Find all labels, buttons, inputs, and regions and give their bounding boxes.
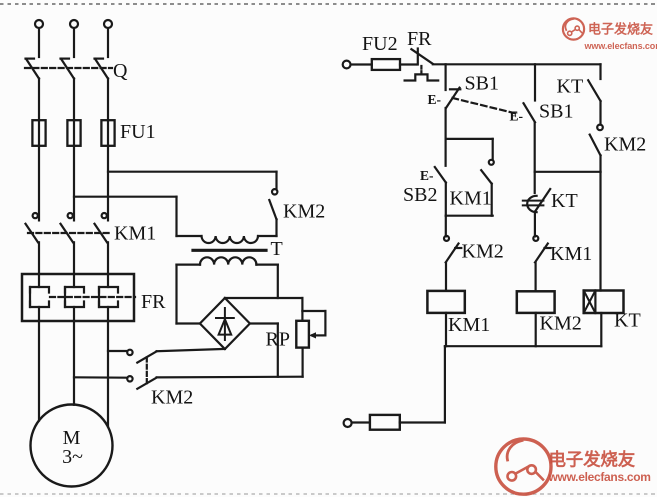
wire pole3 to brake contact a [108, 350, 127, 352]
wire control top bus [433, 63, 601, 65]
wire KM2 interlock to KM1 coil [445, 262, 447, 291]
control terminal bottom [344, 419, 352, 427]
svg-text:3~: 3~ [62, 446, 83, 468]
watermark top right [563, 18, 657, 50]
wire bus to SB1 start [534, 64, 536, 100]
svg-text:FR: FR [407, 28, 432, 50]
wire node B to KT contact [534, 172, 536, 193]
transformer T [193, 236, 277, 265]
coil KM1 [427, 291, 464, 313]
wire brake contact b to RP [157, 376, 303, 379]
svg-text:www.elecfans.com: www.elecfans.com [548, 470, 651, 484]
rectifier diode [216, 308, 234, 340]
wire pole2 to brake contact b [74, 376, 127, 379]
svg-text:KM1: KM1 [448, 314, 490, 336]
svg-text:T: T [271, 238, 283, 260]
RP wiper [302, 311, 325, 339]
KM1 linkage (dashed) [28, 232, 110, 234]
label KM2 brake [151, 387, 193, 409]
label KT right [557, 76, 584, 98]
svg-text:KM2: KM2 [604, 134, 646, 156]
wire RP bottom [302, 348, 304, 377]
svg-text:KM2: KM2 [462, 241, 504, 263]
time relay KT contact (NO) [588, 80, 600, 101]
label M 3~ [62, 427, 83, 468]
label FU2 [362, 33, 398, 55]
label RP [266, 329, 290, 351]
label KM1 aux [450, 188, 492, 210]
svg-text:KT: KT [557, 76, 584, 98]
svg-text:E-: E- [420, 168, 434, 183]
SB1 linkage (dashed) [453, 98, 517, 114]
wire node A top [446, 138, 493, 140]
wire KT contact to KM1 interlock [534, 212, 536, 237]
contactor KM1 interlock contact (NC) [533, 236, 550, 263]
wire secondary left to rectifier [177, 265, 201, 324]
svg-text:KT: KT [614, 310, 641, 332]
wire SB1 to node A [445, 108, 447, 139]
wire FU1 to KM1 [39, 146, 108, 221]
label FR control [407, 28, 432, 50]
label FR [141, 291, 166, 313]
SB1 start actuator E [510, 109, 524, 124]
label KT coil [614, 310, 641, 332]
KM2 brake linkage (dashed) [146, 358, 148, 385]
label Q [113, 60, 128, 82]
wire terminal leads [39, 28, 108, 57]
switch Q poles [26, 59, 109, 79]
svg-text:FU1: FU1 [120, 121, 156, 143]
motor M [31, 405, 113, 487]
label KM1 coil [448, 314, 490, 336]
fuse control bottom [352, 415, 400, 430]
SB2 actuator E [420, 168, 434, 183]
svg-text:FU2: FU2 [362, 33, 398, 55]
coil KM2 [517, 291, 555, 313]
svg-text:KT: KT [551, 190, 578, 212]
KM2 brake contact b [127, 376, 156, 389]
pushbutton SB2 (start, NO) [435, 139, 446, 183]
svg-text:KM1: KM1 [450, 188, 492, 210]
label KM2 aux [604, 134, 646, 156]
svg-text:www.elecfans.com: www.elecfans.com [584, 41, 657, 51]
FR heater linkage (dashed) [50, 296, 135, 298]
svg-text:Q: Q [113, 60, 128, 82]
label KM1 interlock [550, 243, 592, 265]
svg-text:FR: FR [141, 291, 166, 313]
wire bus to SB1 stop [445, 64, 447, 90]
wire SB2 lower [445, 183, 447, 216]
contactor KM2 aux contact (NO) [590, 125, 603, 156]
wire terminal to FU2 [351, 63, 372, 65]
svg-text:SB1: SB1 [465, 73, 499, 95]
label KM2 (transformer feed) [283, 201, 325, 223]
wire node B to KT coil [599, 172, 601, 291]
label SB2 [403, 184, 437, 206]
KM2 brake contact a [127, 350, 156, 363]
bridge rectifier [200, 298, 250, 349]
contactor KM1 aux contact (NO) [481, 139, 494, 216]
FR control contact [411, 49, 432, 65]
svg-text:E-: E- [428, 92, 442, 107]
svg-text:KM2: KM2 [283, 201, 325, 223]
label KT delay [551, 190, 578, 212]
svg-text:KM1: KM1 [550, 243, 592, 265]
wire node B [535, 171, 601, 173]
switch Q linkage (dashed) [25, 67, 112, 69]
label SB1 stop [465, 73, 499, 95]
svg-text:电子发烧友: 电子发烧友 [588, 22, 653, 37]
svg-text:SB1: SB1 [539, 101, 573, 123]
svg-text:KM2: KM2 [540, 313, 582, 335]
fuse FU1 [32, 120, 114, 146]
fuse FU2 [372, 59, 416, 70]
contactor KM2 interlock contact (NC) [444, 236, 461, 263]
SB1 stop actuator E [428, 92, 442, 107]
wire KT coil to bus [600, 313, 602, 346]
FR actuator (dashed) [420, 66, 422, 76]
contactor KM2 contact (transformer feed) [269, 189, 277, 236]
svg-text:SB2: SB2 [403, 184, 437, 206]
rheostat RP [296, 321, 309, 348]
wire brake contact a to rectifier [157, 349, 225, 351]
svg-text:RP: RP [266, 329, 290, 351]
wire KM1 interlock to KM2 coil [534, 262, 536, 291]
label KM2 coil [540, 313, 582, 335]
wire SB1 start to node B [534, 123, 536, 172]
label FU1 [120, 121, 156, 143]
svg-text:KM1: KM1 [114, 223, 156, 245]
wire node A bottom [446, 215, 493, 217]
svg-text:E-: E- [510, 109, 524, 124]
coil KT [584, 291, 624, 314]
time relay KT delay contact [523, 189, 550, 212]
wire pole2 to transformer primary [74, 197, 202, 236]
control terminal top [343, 61, 351, 69]
FR thermal element [405, 74, 439, 80]
svg-text:KM2: KM2 [151, 387, 193, 409]
wire KT to KM2 aux [599, 101, 601, 125]
wire bus down left [400, 346, 445, 422]
wire KM1 coil to bus [445, 313, 447, 346]
wire KM2 aux to node B [599, 155, 601, 171]
label T [271, 238, 283, 260]
label SB1 start [539, 101, 573, 123]
watermark bottom right [496, 439, 651, 494]
wire secondary right to rectifier [256, 265, 277, 298]
label KM1 [114, 223, 156, 245]
wire to KM2 interlock [445, 216, 447, 237]
wire pole3 to KM2 brake contact [108, 172, 277, 189]
wire bus corner right [599, 64, 601, 79]
pushbutton SB1 (start, NO) [524, 103, 536, 122]
node L1 L2 L3 supply terminals [35, 20, 112, 28]
wire KM2 coil to bus [535, 313, 537, 346]
wire rectifier right to RP bottom [250, 324, 278, 377]
label KM2 interlock [462, 241, 504, 263]
wire Q to FU1 [39, 79, 108, 121]
thermal relay FR heaters [22, 274, 134, 321]
wire FR to motor [39, 321, 108, 427]
svg-text:电子发烧友: 电子发烧友 [549, 450, 636, 470]
contactor KM1 main contacts [26, 213, 109, 274]
pushbutton SB1 (stop, NC) [446, 88, 460, 108]
wire rectifier top to RP [225, 298, 303, 321]
wire control bottom bus [445, 345, 601, 347]
